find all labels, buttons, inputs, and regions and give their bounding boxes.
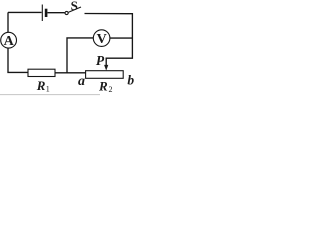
- svg-text:V: V: [97, 32, 107, 47]
- svg-text:R: R: [36, 78, 46, 93]
- svg-text:1: 1: [46, 85, 50, 94]
- svg-text:a: a: [78, 74, 85, 89]
- svg-text:b: b: [127, 72, 134, 87]
- svg-text:R: R: [98, 79, 108, 94]
- svg-text:S: S: [71, 0, 78, 13]
- svg-text:A: A: [4, 34, 15, 49]
- svg-text:P: P: [96, 53, 105, 68]
- svg-text:2: 2: [109, 85, 113, 94]
